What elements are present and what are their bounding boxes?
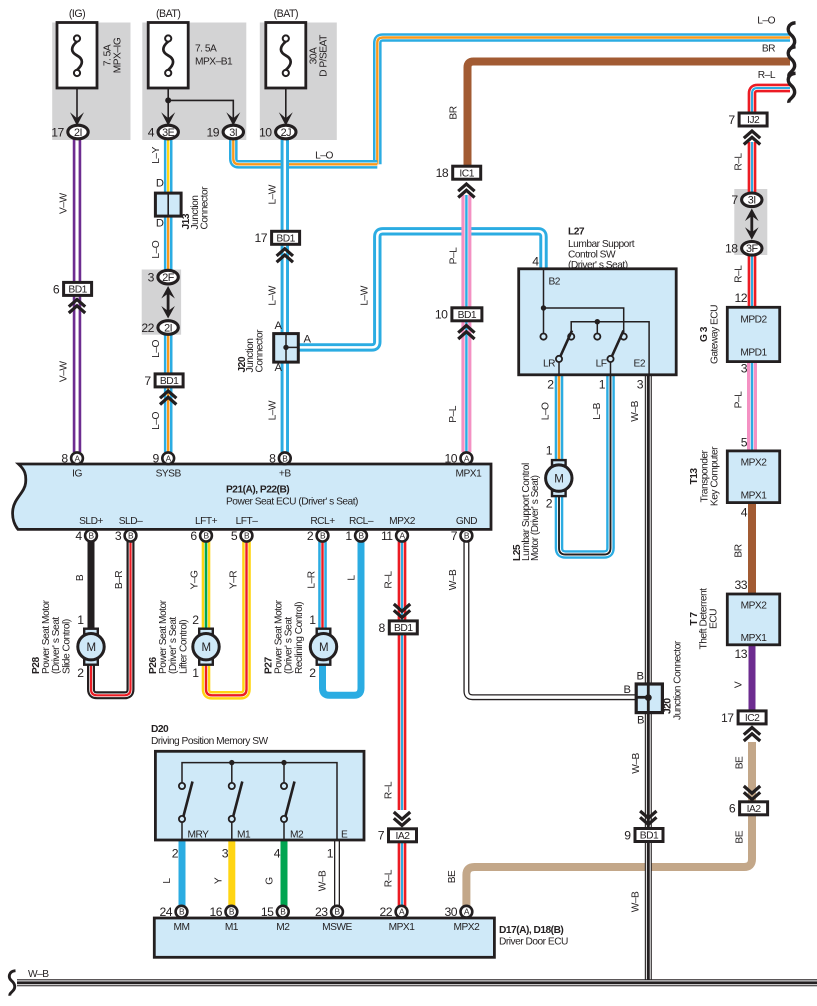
- svg-text:33: 33: [734, 578, 747, 592]
- svg-text:SLD+: SLD+: [79, 516, 103, 527]
- svg-text:B: B: [624, 684, 631, 696]
- svg-text:Reclining Control): Reclining Control): [294, 602, 305, 674]
- svg-text:BD1: BD1: [160, 376, 179, 387]
- svg-text:Connector: Connector: [255, 329, 266, 373]
- svg-text:L–B: L–B: [592, 402, 603, 419]
- svg-text:IA2: IA2: [396, 831, 411, 842]
- svg-text:B: B: [637, 671, 644, 683]
- svg-text:Lumbar Support: Lumbar Support: [568, 239, 635, 250]
- svg-text:MPX–B1: MPX–B1: [195, 57, 233, 68]
- svg-text:W–B: W–B: [630, 400, 641, 421]
- svg-text:1: 1: [192, 666, 199, 680]
- svg-text:L–Y: L–Y: [151, 146, 162, 163]
- svg-text:1: 1: [327, 847, 334, 861]
- svg-text:(Driver' s Seat): (Driver' s Seat): [568, 260, 628, 271]
- svg-text:P–L: P–L: [449, 247, 460, 264]
- svg-text:Lifter Control): Lifter Control): [178, 620, 189, 674]
- svg-text:22: 22: [380, 905, 393, 919]
- svg-text:MPD2: MPD2: [740, 315, 767, 326]
- svg-text:W–B: W–B: [28, 969, 49, 980]
- svg-text:1: 1: [546, 444, 553, 458]
- svg-text:12: 12: [734, 291, 747, 305]
- svg-text:B–R: B–R: [114, 571, 125, 589]
- svg-text:MPX1: MPX1: [741, 633, 768, 644]
- svg-text:W–B: W–B: [631, 753, 642, 774]
- svg-text:W–B: W–B: [318, 870, 329, 891]
- svg-text:R–L: R–L: [384, 781, 395, 799]
- svg-text:D P/SEAT: D P/SEAT: [319, 35, 330, 77]
- svg-text:1: 1: [77, 613, 84, 627]
- svg-text:10: 10: [259, 125, 272, 139]
- svg-text:BD1: BD1: [458, 310, 477, 321]
- svg-text:B2: B2: [549, 277, 561, 288]
- svg-text:13: 13: [734, 647, 747, 661]
- svg-text:L–W: L–W: [267, 184, 278, 204]
- svg-text:L: L: [162, 878, 173, 884]
- svg-text:Motor (Driver' s Seat): Motor (Driver' s Seat): [530, 475, 541, 561]
- svg-text:E2: E2: [634, 359, 646, 370]
- svg-text:5: 5: [231, 529, 238, 543]
- svg-text:MPX1: MPX1: [741, 491, 768, 502]
- svg-text:23: 23: [315, 905, 328, 919]
- svg-text:7: 7: [144, 374, 151, 388]
- svg-text:L–W: L–W: [267, 400, 278, 420]
- svg-text:3I: 3I: [748, 195, 756, 207]
- svg-text:BE: BE: [447, 870, 458, 883]
- svg-text:19: 19: [207, 125, 220, 139]
- svg-text:D: D: [156, 178, 164, 190]
- svg-text:8: 8: [379, 621, 386, 635]
- svg-text:P–L: P–L: [448, 405, 459, 422]
- svg-text:BD1: BD1: [68, 285, 87, 296]
- svg-text:2: 2: [172, 847, 179, 861]
- svg-text:M1: M1: [237, 830, 251, 841]
- svg-text:A: A: [275, 362, 283, 374]
- svg-text:18: 18: [725, 242, 738, 256]
- svg-text:V–W: V–W: [59, 361, 70, 382]
- svg-text:3: 3: [741, 362, 748, 376]
- svg-text:BD1: BD1: [276, 234, 295, 245]
- svg-text:2F: 2F: [162, 272, 175, 284]
- svg-text:MPX1: MPX1: [389, 922, 416, 933]
- svg-text:MPX1: MPX1: [456, 468, 483, 479]
- svg-text:2: 2: [77, 666, 84, 680]
- svg-text:Key Computer: Key Computer: [710, 446, 721, 506]
- svg-text:Y: Y: [214, 877, 225, 884]
- svg-text:4: 4: [75, 529, 82, 543]
- svg-text:L–R: L–R: [307, 571, 318, 588]
- svg-text:G 3: G 3: [699, 326, 710, 342]
- svg-text:M: M: [86, 642, 95, 654]
- svg-text:L–O: L–O: [541, 402, 552, 420]
- svg-text:3I: 3I: [229, 127, 237, 139]
- svg-text:R–L: R–L: [734, 153, 745, 171]
- svg-text:4: 4: [148, 125, 155, 139]
- svg-text:10: 10: [444, 452, 457, 466]
- svg-text:Junction Connector: Junction Connector: [673, 640, 684, 720]
- svg-text:G: G: [265, 877, 276, 885]
- svg-text:W–B: W–B: [448, 569, 459, 590]
- svg-text:7: 7: [731, 193, 738, 207]
- svg-text:MPX2: MPX2: [389, 516, 416, 527]
- svg-text:B: B: [282, 453, 288, 463]
- svg-text:R–L: R–L: [384, 571, 395, 589]
- svg-text:GND: GND: [456, 516, 477, 527]
- svg-text:R–L: R–L: [384, 869, 395, 887]
- svg-text:P21(A), P22(B): P21(A), P22(B): [226, 485, 289, 496]
- svg-text:MSWE: MSWE: [322, 922, 352, 933]
- svg-text:Y–R: Y–R: [229, 571, 240, 589]
- svg-text:LFT+: LFT+: [195, 516, 218, 527]
- svg-text:L–O: L–O: [151, 240, 162, 258]
- svg-text:LFT–: LFT–: [236, 516, 259, 527]
- svg-text:6: 6: [53, 282, 60, 296]
- svg-text:3E: 3E: [162, 127, 175, 139]
- svg-text:IC2: IC2: [745, 713, 760, 724]
- svg-text:MPD1: MPD1: [740, 348, 767, 359]
- svg-text:M: M: [554, 473, 563, 485]
- svg-text:11: 11: [381, 529, 393, 543]
- svg-text:R–L: R–L: [758, 70, 776, 81]
- svg-text:SYSB: SYSB: [156, 468, 182, 479]
- svg-text:M1: M1: [225, 922, 239, 933]
- svg-text:17: 17: [255, 231, 268, 245]
- svg-text:IC1: IC1: [459, 168, 474, 179]
- svg-text:MPX2: MPX2: [741, 458, 768, 469]
- svg-text:30: 30: [444, 905, 457, 919]
- svg-text:2I: 2I: [164, 322, 172, 334]
- svg-text:15: 15: [261, 905, 274, 919]
- svg-text:4: 4: [532, 255, 539, 269]
- svg-text:BR: BR: [449, 106, 460, 119]
- svg-text:3F: 3F: [746, 243, 759, 255]
- svg-text:BD1: BD1: [394, 623, 413, 634]
- svg-text:22: 22: [141, 321, 154, 335]
- svg-text:3: 3: [637, 378, 644, 392]
- svg-text:D: D: [156, 218, 164, 230]
- svg-text:8: 8: [269, 452, 276, 466]
- svg-text:V–W: V–W: [59, 193, 70, 214]
- svg-text:T13: T13: [689, 468, 700, 485]
- svg-text:2I: 2I: [74, 127, 82, 139]
- svg-text:+B: +B: [279, 468, 291, 479]
- svg-text:BR: BR: [734, 544, 745, 557]
- svg-text:(IG): (IG): [69, 8, 85, 20]
- svg-text:(BAT): (BAT): [274, 8, 298, 20]
- svg-text:17: 17: [51, 125, 64, 139]
- svg-text:ECU: ECU: [709, 609, 720, 629]
- svg-text:2: 2: [192, 613, 199, 627]
- svg-text:L–O: L–O: [757, 16, 775, 27]
- svg-text:1: 1: [599, 378, 606, 392]
- svg-text:2: 2: [547, 378, 554, 392]
- svg-text:1: 1: [309, 613, 316, 627]
- svg-text:7. 5A: 7. 5A: [195, 44, 217, 55]
- svg-text:Y–G: Y–G: [190, 570, 201, 589]
- svg-text:MM: MM: [174, 922, 190, 933]
- svg-text:Slide Control): Slide Control): [61, 619, 72, 674]
- svg-text:7: 7: [728, 113, 735, 127]
- svg-text:18: 18: [436, 166, 449, 180]
- svg-text:B: B: [75, 574, 86, 581]
- svg-text:L–O: L–O: [151, 412, 162, 430]
- svg-text:Driver Door ECU: Driver Door ECU: [499, 937, 568, 948]
- svg-text:E: E: [341, 830, 348, 841]
- svg-text:4: 4: [741, 506, 748, 520]
- svg-text:M2: M2: [290, 830, 304, 841]
- svg-text:9: 9: [153, 452, 160, 466]
- svg-text:Power Seat ECU (Driver' s Sea: Power Seat ECU (Driver' s Seat): [226, 497, 358, 508]
- svg-text:2J: 2J: [281, 127, 292, 139]
- svg-text:Gateway ECU: Gateway ECU: [710, 305, 721, 364]
- svg-text:8: 8: [61, 452, 68, 466]
- svg-text:IJ2: IJ2: [747, 115, 760, 126]
- svg-text:A: A: [304, 334, 312, 346]
- svg-text:BE: BE: [735, 830, 746, 843]
- svg-text:L–O: L–O: [315, 151, 333, 162]
- svg-text:MRY: MRY: [188, 830, 210, 841]
- svg-text:3: 3: [115, 529, 122, 543]
- svg-text:R–L: R–L: [734, 265, 745, 283]
- svg-text:MPX–IG: MPX–IG: [113, 37, 124, 73]
- svg-text:B: B: [280, 907, 286, 917]
- svg-text:LR: LR: [543, 359, 555, 370]
- svg-text:P–L: P–L: [734, 391, 745, 408]
- svg-text:7: 7: [378, 829, 385, 843]
- svg-text:17: 17: [721, 711, 734, 725]
- svg-text:16: 16: [209, 905, 222, 919]
- svg-text:Control SW: Control SW: [568, 250, 616, 261]
- svg-text:D20: D20: [151, 724, 169, 735]
- svg-text:7: 7: [451, 529, 458, 543]
- svg-text:10: 10: [435, 308, 448, 322]
- svg-text:Connector: Connector: [200, 186, 211, 230]
- svg-text:M: M: [319, 642, 328, 654]
- svg-text:MPX2: MPX2: [454, 922, 481, 933]
- svg-text:SLD–: SLD–: [119, 516, 143, 527]
- svg-text:L–W: L–W: [360, 285, 371, 305]
- svg-text:2: 2: [309, 666, 316, 680]
- svg-text:L–O: L–O: [151, 340, 162, 358]
- svg-text:3: 3: [148, 271, 155, 285]
- svg-text:9: 9: [624, 828, 631, 842]
- svg-text:RCL+: RCL+: [310, 516, 335, 527]
- svg-text:1: 1: [345, 529, 352, 543]
- svg-text:L: L: [347, 575, 358, 581]
- svg-text:IG: IG: [72, 468, 82, 479]
- svg-text:M: M: [201, 642, 210, 654]
- svg-text:2: 2: [307, 529, 314, 543]
- svg-text:24: 24: [160, 905, 173, 919]
- svg-text:6: 6: [729, 802, 736, 816]
- svg-text:Driving Position Memory SW: Driving Position Memory SW: [151, 736, 269, 747]
- svg-text:(BAT): (BAT): [156, 8, 180, 20]
- svg-text:L–W: L–W: [267, 285, 278, 305]
- svg-text:RCL–: RCL–: [349, 516, 374, 527]
- svg-text:5: 5: [741, 436, 748, 450]
- svg-text:D17(A), D18(B): D17(A), D18(B): [499, 925, 563, 936]
- svg-text:B: B: [637, 715, 644, 727]
- svg-text:6: 6: [190, 529, 197, 543]
- svg-text:MPX2: MPX2: [741, 601, 768, 612]
- svg-text:L27: L27: [568, 227, 585, 238]
- svg-text:BE: BE: [735, 756, 746, 769]
- svg-text:BR: BR: [762, 44, 775, 55]
- svg-text:IA2: IA2: [747, 804, 762, 815]
- svg-text:W–B: W–B: [631, 891, 642, 912]
- svg-text:LF: LF: [596, 359, 607, 370]
- svg-text:V: V: [734, 681, 745, 688]
- svg-text:BD1: BD1: [640, 831, 659, 842]
- svg-text:M2: M2: [276, 922, 290, 933]
- svg-text:2: 2: [546, 497, 553, 511]
- svg-text:A: A: [275, 320, 283, 332]
- svg-text:3: 3: [222, 847, 229, 861]
- svg-text:4: 4: [274, 847, 281, 861]
